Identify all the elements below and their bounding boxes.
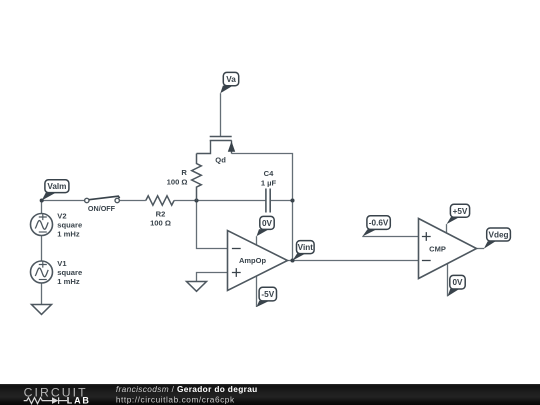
net flag 0V (CMP bottom): [448, 275, 466, 296]
wire R2 to C4 left plate (through junction): [174, 200, 266, 202]
wire CMP bottom power pin: [447, 264, 449, 297]
svg-text:R2: R2: [156, 210, 166, 219]
wire junction B down to output node: [292, 201, 294, 261]
ground (left): [32, 305, 52, 315]
ground (op-amp plus input): [187, 282, 207, 292]
svg-text:square: square: [57, 268, 82, 277]
net flag -5V (op-amp bottom): [257, 287, 277, 307]
voltage source V1: [31, 261, 53, 283]
svg-text:+5V: +5V: [453, 207, 468, 216]
svg-text:1 mHz: 1 mHz: [57, 230, 80, 239]
label C4: [261, 169, 277, 187]
switch ON/OFF: [85, 196, 120, 203]
wire node Valm to switch: [42, 200, 85, 202]
comparator U2 CMP: [419, 219, 477, 279]
svg-text:C4: C4: [264, 169, 274, 178]
label CMP: [429, 245, 446, 254]
svg-text:Vint: Vint: [298, 243, 314, 252]
svg-text:Qd: Qd: [215, 155, 226, 164]
wire C4 right plate to junction B: [270, 200, 292, 202]
voltage source V2: [31, 214, 53, 236]
svg-text:Va: Va: [226, 75, 236, 84]
footer black bar: [0, 384, 540, 405]
svg-text:-0.6V: -0.6V: [369, 219, 389, 228]
net flag -0.6V: [362, 216, 390, 237]
resistor R2: [146, 196, 174, 205]
svg-text:AmpOp: AmpOp: [239, 256, 267, 265]
net flag Va: [220, 72, 238, 93]
label V2: [57, 212, 82, 239]
wire V1 to ground: [41, 283, 43, 305]
net flag Vint: [293, 241, 315, 261]
CircuitLab logo CIRCUIT: [24, 385, 88, 399]
svg-text:LAB: LAB: [67, 395, 91, 405]
wire -0.6V flag to CMP plus input: [362, 236, 418, 238]
svg-text:http://circuitlab.com/cra6cpk: http://circuitlab.com/cra6cpk: [116, 394, 235, 404]
op-amp U1 AmpOp: [228, 231, 288, 291]
wire V2 to V1: [41, 236, 43, 262]
svg-text:0V: 0V: [262, 219, 273, 228]
svg-text:Valm: Valm: [47, 182, 66, 191]
wire op-amp plus input to ground: [197, 273, 228, 282]
wire switch to R2: [120, 200, 146, 202]
svg-text:100 Ω: 100 Ω: [167, 178, 188, 187]
svg-text:100 Ω: 100 Ω: [150, 219, 171, 228]
node dot Valm: [40, 198, 44, 202]
wire feedback down to op-amp minus input: [197, 201, 228, 249]
resistor R (vertical): [192, 154, 202, 201]
wire CMP output stub: [477, 248, 485, 250]
wire node to V2 top: [41, 201, 43, 214]
component value labels: [57, 155, 446, 286]
label V1: [57, 259, 82, 286]
net flag +5V (CMP top): [447, 204, 470, 224]
label Qd: [215, 155, 226, 164]
svg-text:square: square: [57, 221, 82, 230]
svg-text:Vdeg: Vdeg: [488, 231, 508, 240]
svg-text:V2: V2: [57, 212, 66, 221]
wire op-amp bottom power pin: [256, 276, 258, 307]
wire Qd source to right vertical down to junction B: [232, 154, 293, 201]
CircuitLab logo resistor-diode glyph: [24, 397, 67, 404]
svg-text:1 µF: 1 µF: [261, 178, 277, 187]
net flag Valm: [42, 180, 69, 201]
label AmpOp: [239, 256, 267, 265]
net flag 0V (op-amp top): [257, 216, 275, 236]
wire CMP top power pin: [446, 224, 448, 233]
svg-text:1 mHz: 1 mHz: [57, 277, 80, 286]
transistor Qd: [197, 137, 235, 154]
capacitor C4: [266, 189, 270, 213]
svg-text:ON/OFF: ON/OFF: [88, 204, 116, 213]
label ON/OFF: [88, 204, 116, 213]
output node dot Vint: [290, 258, 294, 262]
wire op-amp top power pin: [256, 236, 258, 245]
label R: [167, 168, 188, 187]
junction node A: [194, 198, 198, 202]
footer credit line: [116, 384, 258, 405]
svg-text:-5V: -5V: [261, 290, 274, 299]
svg-text:CMP: CMP: [429, 245, 446, 254]
net flag Vdeg: [484, 228, 511, 249]
svg-text:0V: 0V: [452, 278, 463, 287]
svg-text:V1: V1: [57, 259, 67, 268]
wire Va to Qd gate: [220, 93, 222, 136]
junction node B: [290, 198, 294, 202]
svg-text:franciscodsm / Gerador do degr: franciscodsm / Gerador do degrau: [116, 384, 258, 394]
CircuitLab logo LAB: [67, 395, 91, 405]
label R2: [150, 210, 171, 228]
wire op-amp output to CMP minus input: [288, 260, 419, 262]
svg-text:R: R: [181, 168, 187, 177]
